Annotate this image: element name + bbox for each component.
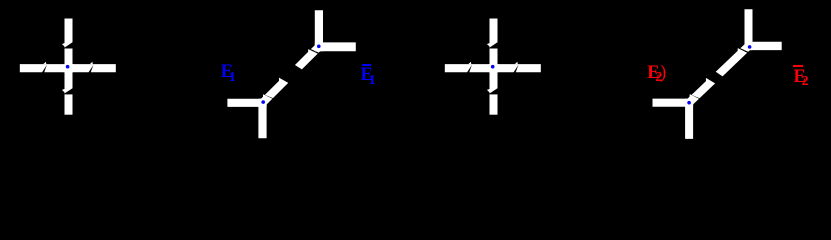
figure E2: lower vertex down leg <box>685 99 693 139</box>
cross A top leg lower piece <box>65 49 73 67</box>
figure E2 diagonal edge stub at lower vertex (arrow tail) <box>683 94 699 108</box>
figure E1 diagonal edge lower segment (arrow toward upper vertex) <box>265 78 288 98</box>
label E_1 (blue) <box>221 63 236 82</box>
label E-bar_1 (blue) <box>361 66 376 85</box>
cross A bottom leg upper piece with arrowhead (arrow down) <box>65 70 73 93</box>
cross B bottom leg lower piece <box>490 94 498 114</box>
cross B bottom leg arrow barb <box>487 89 490 92</box>
figure E2 diagonal edge upper segment (arrow into upper vertex) <box>716 48 748 76</box>
figure E1: upper vertex right leg <box>315 42 356 51</box>
figure E2 diagonal edge stub at upper vertex <box>740 40 754 51</box>
cross B horizontal bar center <box>489 64 499 72</box>
cross B right leg arrow barb <box>515 62 518 64</box>
figure E2: lower vertex site (blue dot) <box>687 101 691 105</box>
cross B bottom leg upper piece with arrowhead (arrow down) <box>490 70 498 93</box>
cross A horizontal bar center <box>64 64 74 72</box>
cross A bottom leg lower piece <box>65 94 73 114</box>
cross A right leg inner piece with arrowhead (arrow right) <box>71 64 94 72</box>
figure E2 diagonal edge lower segment (arrow toward upper vertex) <box>692 78 716 98</box>
figure E1: lower vertex down leg <box>258 99 266 139</box>
cross B top leg arrow barb <box>487 43 490 46</box>
cross A top leg upper piece with arrowhead (arrow down) <box>65 19 73 48</box>
cross A left leg outer piece with arrowhead (arrow right) <box>20 64 48 72</box>
figure E1: lower vertex site (blue dot) <box>261 100 265 104</box>
cross B left leg arrow barb <box>468 62 471 64</box>
figure E1 diagonal edge upper segment (arrow into upper vertex) <box>295 49 318 69</box>
label E_2 with parenthesis (red) <box>647 64 666 83</box>
label E-bar_2 (red) <box>794 68 809 87</box>
figure E2: upper vertex site (blue dot) <box>748 45 752 49</box>
cross B vertex site (blue dot) <box>491 65 495 69</box>
cross B right leg outer piece <box>516 64 541 72</box>
vertex cross A (star operator on lattice) <box>20 19 116 115</box>
cross B top leg upper piece with arrowhead (arrow down) <box>490 19 498 48</box>
figure E1: upper vertex top leg <box>315 10 323 51</box>
figure E1 diagonal edge stub at lower vertex (arrow tail) <box>257 94 273 108</box>
figure E2: upper vertex right leg <box>745 42 782 50</box>
figure E1 diagonal edge stub at upper vertex <box>311 41 325 52</box>
figure E1: upper vertex site (blue dot) <box>317 45 321 49</box>
macron over E-bar_2 <box>793 65 802 67</box>
cross A vertex site (blue dot) <box>66 65 70 69</box>
cross B right leg inner piece with arrowhead (arrow right) <box>496 64 519 72</box>
vertex cross B (star operator on lattice) <box>445 19 541 115</box>
figure E1: lower vertex left leg <box>227 99 266 107</box>
cross A right leg arrow barb <box>90 62 93 64</box>
cross B left leg inner piece <box>469 64 491 72</box>
cross A left leg inner piece <box>44 64 66 72</box>
cross A bottom leg arrow barb <box>62 89 65 92</box>
figure E2: upper vertex top leg <box>745 9 753 50</box>
cross B top leg lower piece <box>490 49 498 67</box>
cross A top leg arrow barb <box>62 43 65 46</box>
figure E2: lower vertex left leg <box>653 99 694 107</box>
macron over E-bar_1 <box>362 64 371 66</box>
cross A right leg outer piece <box>91 64 116 72</box>
cross B left leg outer piece with arrowhead (arrow right) <box>445 64 473 72</box>
cross A left leg arrow barb <box>43 62 46 64</box>
